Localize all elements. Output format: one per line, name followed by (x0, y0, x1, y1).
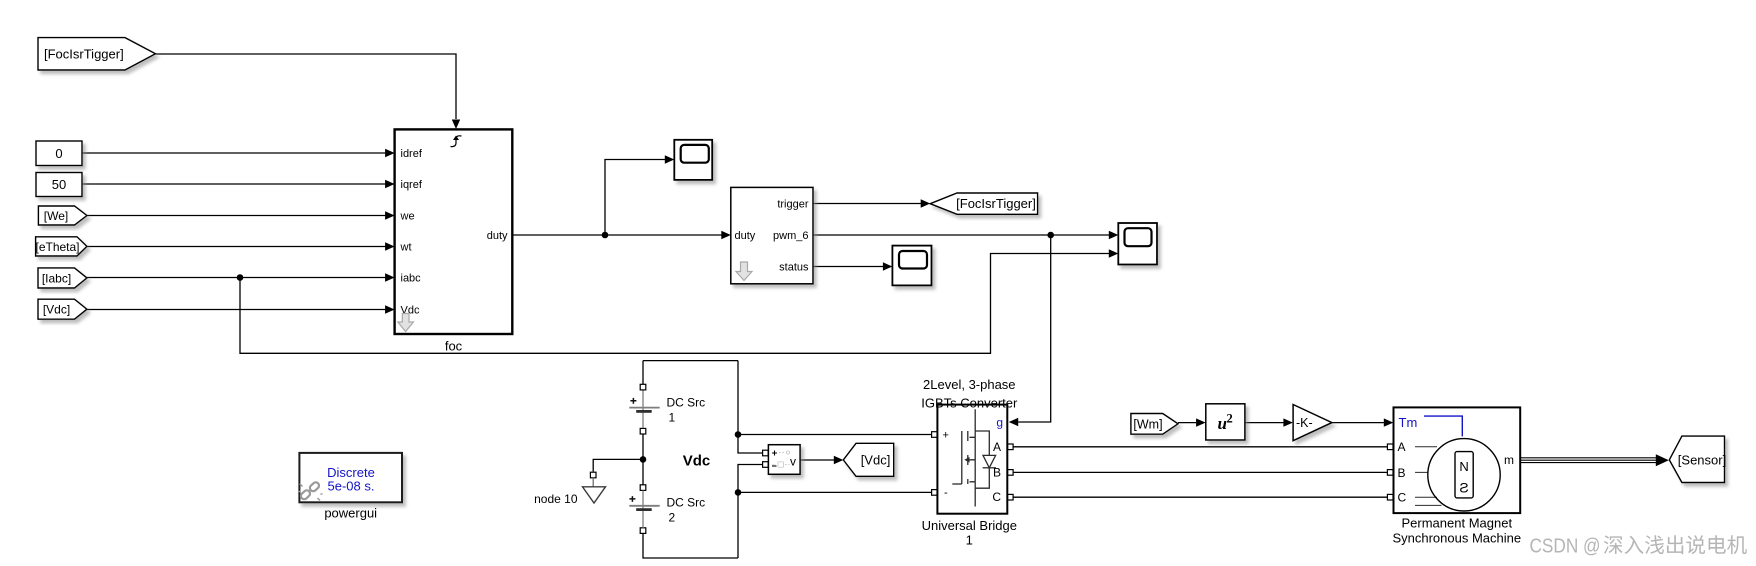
svg-text:g: g (996, 416, 1003, 430)
svg-text:[We]: [We] (44, 209, 68, 223)
svg-text:Vdc: Vdc (683, 452, 711, 469)
svg-text:duty: duty (735, 230, 756, 242)
svg-text:A: A (1398, 440, 1406, 454)
svg-text:[Wm]: [Wm] (1133, 417, 1162, 431)
svg-text:[eTheta]: [eTheta] (35, 240, 79, 254)
svg-text:wt: wt (400, 242, 412, 254)
svg-text:C: C (1398, 491, 1407, 505)
svg-text:2Level, 3-phase: 2Level, 3-phase (923, 377, 1016, 392)
svg-text:iabc: iabc (401, 273, 422, 285)
svg-text:1: 1 (669, 411, 676, 425)
svg-text:50: 50 (52, 177, 66, 192)
svg-text:pwm_6: pwm_6 (773, 230, 808, 242)
svg-text:powergui: powergui (324, 506, 377, 521)
svg-text:iqref: iqref (401, 179, 423, 191)
svg-text:DC Src: DC Src (667, 496, 706, 510)
svg-text:[FocIsrTigger]: [FocIsrTigger] (44, 46, 124, 61)
svg-text:+: + (943, 429, 949, 441)
svg-text:Tm: Tm (1399, 415, 1418, 430)
svg-text:CSDN @: CSDN @ (1530, 536, 1601, 558)
svg-text:duty: duty (487, 230, 508, 242)
svg-text:B: B (993, 465, 1001, 479)
svg-text:v: v (790, 455, 796, 469)
svg-text:-K-: -K- (1296, 416, 1313, 430)
svg-text:C: C (992, 490, 1001, 504)
svg-text:Ƨ: Ƨ (1459, 480, 1468, 496)
svg-text:[Sensor]: [Sensor] (1678, 452, 1726, 467)
svg-text:A: A (993, 440, 1001, 454)
svg-text:node 10: node 10 (534, 492, 578, 506)
svg-text:[FocIsrTigger]: [FocIsrTigger] (956, 196, 1036, 211)
svg-text:trigger: trigger (777, 198, 809, 210)
svg-text:0: 0 (55, 146, 62, 161)
svg-text:Universal Bridge: Universal Bridge (922, 518, 1017, 533)
svg-text:[Vdc]: [Vdc] (43, 303, 70, 317)
svg-text:1: 1 (966, 533, 973, 548)
svg-text:[Iabc]: [Iabc] (42, 271, 71, 285)
svg-text:IGBTs Converter: IGBTs Converter (921, 395, 1018, 410)
svg-text:2: 2 (1227, 412, 1233, 426)
svg-text:2: 2 (669, 511, 676, 525)
svg-text:idref: idref (401, 148, 423, 160)
svg-text:5e-08 s.: 5e-08 s. (328, 479, 375, 494)
svg-text:m: m (1504, 453, 1514, 467)
svg-text:DC Src: DC Src (667, 396, 706, 410)
svg-text:Synchronous Machine: Synchronous Machine (1392, 530, 1521, 545)
svg-text:[Vdc]: [Vdc] (861, 452, 891, 467)
svg-text:Permanent Magnet: Permanent Magnet (1402, 515, 1513, 530)
svg-text:B: B (1398, 466, 1406, 480)
svg-text:foc: foc (445, 339, 463, 354)
svg-text:status: status (779, 261, 809, 273)
svg-text:we: we (400, 211, 415, 223)
svg-text:N: N (1459, 459, 1468, 474)
svg-text:-: - (944, 487, 948, 499)
